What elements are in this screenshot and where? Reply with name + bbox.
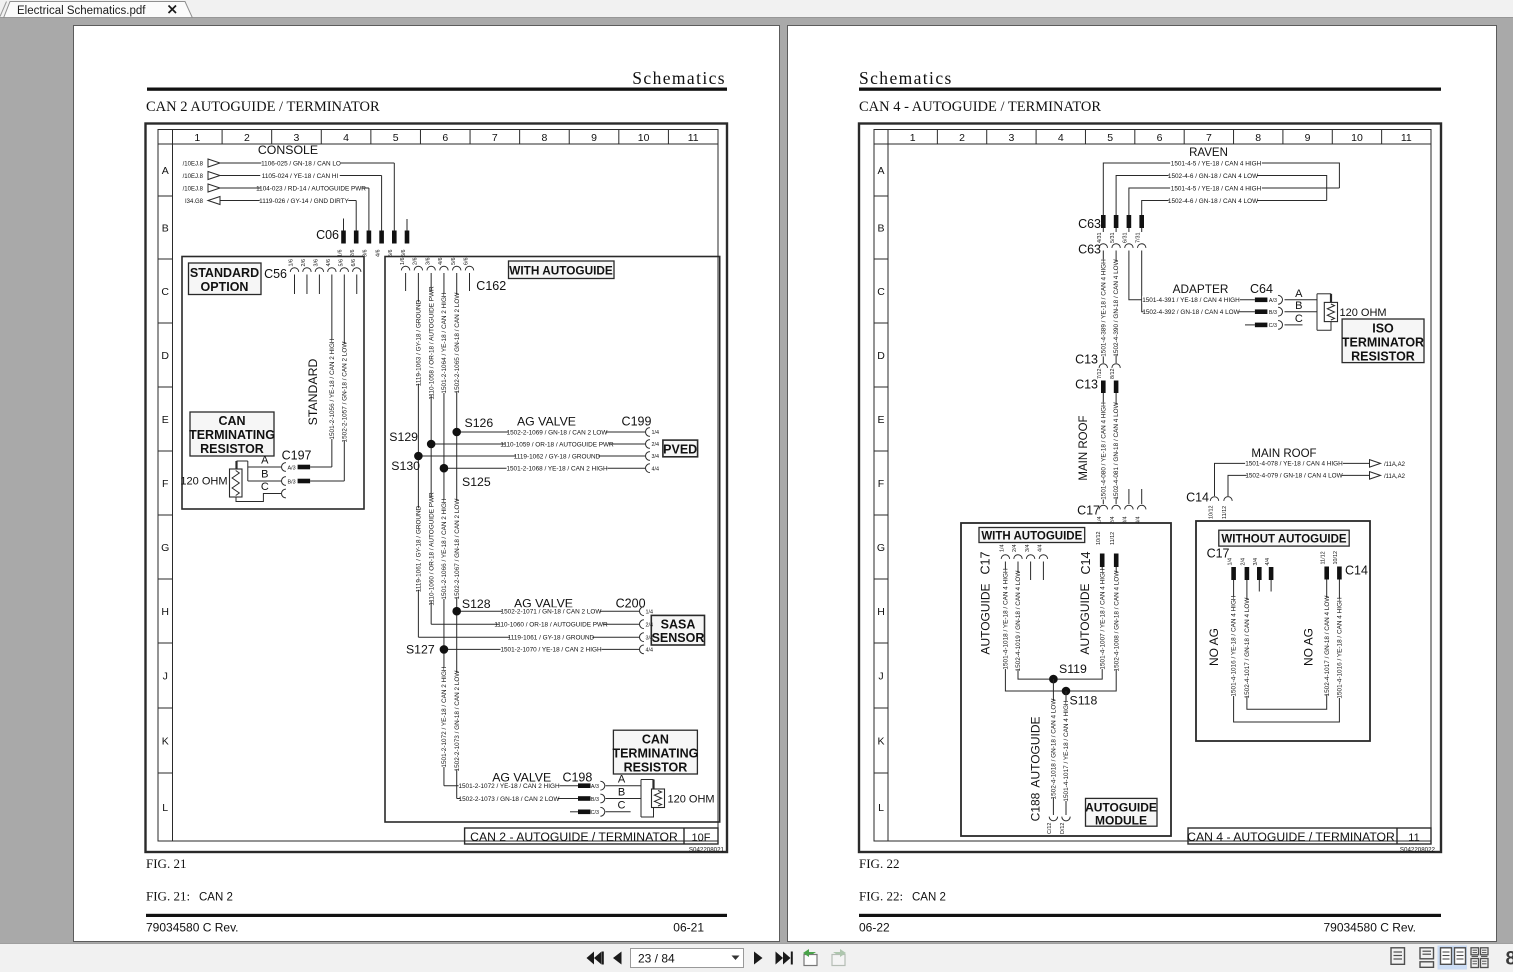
svg-text:1: 1 [194, 132, 200, 144]
svg-text:11/12: 11/12 [1110, 532, 1116, 545]
svg-text:MAIN ROOF: MAIN ROOF [1251, 448, 1316, 460]
toolbar next view button (disabled) [832, 955, 845, 966]
svg-text:1502-4-390 / GN-18 / CAN 4 LOW: 1502-4-390 / GN-18 / CAN 4 LOW [1113, 258, 1120, 356]
column header row line [158, 143, 718, 145]
svg-text:79034580 C Rev.: 79034580 C Rev. [1323, 921, 1416, 935]
connector C63 pin 4/31 [1101, 215, 1106, 228]
p2 row separator [874, 195, 888, 197]
p2 row separator [874, 642, 888, 644]
svg-text:1502-2-1071 / GN-18 / CAN 2 LO: 1502-2-1071 / GN-18 / CAN 2 LOW [501, 609, 603, 616]
page 2 sheet [787, 25, 1497, 942]
svg-text:1110-1060 / OR-18 / AUTOGUIDE: 1110-1060 / OR-18 / AUTOGUIDE PWR [494, 622, 608, 629]
svg-text:6/6: 6/6 [464, 258, 470, 266]
schematic inner frame p2 [874, 130, 1431, 842]
svg-text:4: 4 [1058, 132, 1064, 144]
svg-text:1502-2-1073 / GN-18 / CAN 2 LO: 1502-2-1073 / GN-18 / CAN 2 LOW [454, 670, 461, 772]
p2 column separator 1 [936, 130, 938, 145]
wire label 1110-1058 [428, 292, 435, 395]
svg-text:7: 7 [492, 132, 498, 144]
connector C56 pin 5/6 [340, 268, 348, 272]
C64 pin C [1245, 324, 1255, 326]
svg-text:4: 4 [343, 132, 349, 144]
svg-text:C14: C14 [1079, 551, 1093, 574]
svg-text:OPTION: OPTION [201, 280, 249, 294]
svg-text:WITHOUT AUTOGUIDE: WITHOUT AUTOGUIDE [1221, 534, 1347, 546]
svg-text:8: 8 [1255, 132, 1261, 144]
column separator 7 [519, 130, 521, 145]
svg-text:J: J [878, 670, 883, 682]
C197 pin A [282, 463, 286, 472]
svg-text:C/3: C/3 [591, 810, 599, 816]
svg-text:1502-4-1017 / GN-18 / CAN 4 LO: 1502-4-1017 / GN-18 / CAN 4 LOW [1324, 595, 1331, 697]
svg-text:RESISTOR: RESISTOR [1351, 350, 1415, 364]
wire label 1501-4-389 [1100, 260, 1107, 357]
box CAN TERMINATING RESISTOR (left) [190, 412, 274, 456]
wire to C199 pin 3/4 [418, 455, 645, 457]
C13 pin 7/12 [1099, 364, 1107, 368]
svg-text:CAN 2: CAN 2 [912, 892, 946, 904]
svg-text:TERMINATING: TERMINATING [189, 428, 275, 442]
label AUTOGUIDE MODULE [1086, 798, 1158, 826]
svg-text:1502-4-081 / GN-18 / CAN 4 LOW: 1502-4-081 / GN-18 / CAN 4 LOW [1113, 401, 1120, 499]
svg-text:S127: S127 [406, 643, 435, 657]
row separator [158, 450, 173, 452]
svg-text:1501-4-1016 / YE-18 / CAN 4 HI: 1501-4-1016 / YE-18 / CAN 4 HIGH [1337, 597, 1344, 699]
svg-text:D: D [877, 350, 885, 362]
tab bar [0, 0, 1513, 18]
svg-text:S042208022: S042208022 [1400, 847, 1436, 854]
wire C17 pin1 to S118 [1005, 562, 1066, 692]
connector C06 pin 4/6 [379, 231, 384, 244]
connector C162 pin 2/6 [414, 266, 422, 270]
wire label 1501-2-1056 [328, 339, 335, 439]
wire label 1502-2-1073 (low) [453, 673, 460, 770]
p2 column separator 9 [1331, 130, 1333, 145]
svg-text:A: A [877, 165, 884, 177]
svg-text:2/6: 2/6 [301, 259, 307, 267]
wire to C199 pin 4/4 [444, 467, 645, 469]
box WITH AUTOGUIDE p2 outline [961, 523, 1171, 836]
svg-text:C64: C64 [1250, 282, 1273, 296]
C13 black pins [1101, 381, 1106, 394]
svg-text:L: L [878, 802, 884, 814]
wire C14 11/12 to S118 [1066, 567, 1116, 691]
svg-text:C: C [161, 286, 169, 298]
C197 pin C [282, 489, 286, 498]
svg-text:1110-1059 / OR-18 / AUTOGUIDE: 1110-1059 / OR-18 / AUTOGUIDE PWR [500, 441, 614, 448]
svg-text:1/4: 1/4 [652, 430, 660, 436]
svg-text:STANDARD: STANDARD [306, 359, 320, 426]
svg-text:CAN 2 - AUTOGUIDE / TERMINA: CAN 2 - AUTOGUIDE / TERMINATOR [470, 830, 678, 844]
wire label 1501-2-1072 (low) [440, 667, 447, 767]
svg-text:WITH AUTOGUIDE: WITH AUTOGUIDE [981, 530, 1082, 542]
svg-text:C14: C14 [1345, 564, 1368, 578]
wire to C200 pin 1/4 [457, 610, 639, 612]
wire label 1502-4-1018 [1050, 701, 1057, 798]
svg-text:C162: C162 [476, 279, 506, 293]
column separator 5 [419, 130, 421, 145]
svg-text:1501-4-1016 / YE-18 / CAN 4 HI: 1501-4-1016 / YE-18 / CAN 4 HIGH [1231, 595, 1238, 697]
svg-text:TERMINATOR: TERMINATOR [1342, 336, 1424, 350]
wire to C200 pin 3/4 [418, 636, 639, 638]
svg-text:1502-4-392 / GN-18 / CAN 4 LOW: 1502-4-392 / GN-18 / CAN 4 LOW [1142, 309, 1240, 316]
wire label 1501-4-1016 (right) [1336, 598, 1343, 698]
svg-text:3/4: 3/4 [652, 454, 660, 460]
resistor bottom wire to pin C [236, 494, 281, 502]
svg-text:79034580 C Rev.: 79034580 C Rev. [146, 921, 239, 935]
svg-text:1502-2-1057 / GN-18 / CAN 2 LO: 1502-2-1057 / GN-18 / CAN 2 LOW [341, 341, 348, 443]
svg-text:11: 11 [1408, 832, 1419, 844]
junction S127 [440, 645, 449, 654]
active tab Electrical Schematics.pdf [4, 2, 193, 19]
svg-text:AUTOGUIDE: AUTOGUIDE [979, 583, 993, 654]
junction S129 [427, 440, 436, 449]
C17 without pin 4/4 [1269, 567, 1274, 580]
svg-text:1501-4-5 / YE-18 / CAN 4 HIGH: 1501-4-5 / YE-18 / CAN 4 HIGH [1171, 160, 1262, 167]
wire label 1501-4-080 [1100, 403, 1107, 500]
C17 without pin4 stub [1270, 580, 1272, 592]
connector C06 pin 1/6 [341, 231, 346, 244]
wire S118 down to C188 [1065, 691, 1067, 815]
svg-text:S125: S125 [462, 475, 491, 489]
label STANDARD OPTION [189, 263, 262, 295]
p2 row separator [874, 578, 888, 580]
svg-text:C/3: C/3 [1269, 323, 1277, 329]
row separator [158, 707, 173, 709]
svg-text:4/4: 4/4 [1038, 545, 1044, 553]
wire label 1502-4-1017 (right) [1323, 598, 1330, 695]
wire B to terminator [606, 798, 642, 800]
C17 without pin 3/4 [1257, 567, 1262, 580]
C188 pin C/12 [1049, 817, 1057, 821]
C17 box pin 1/4 [1001, 555, 1009, 559]
svg-text:MAIN ROOF: MAIN ROOF [1078, 415, 1090, 480]
svg-text:1502-2-1069 / GN-18 / CAN 2 LO: 1502-2-1069 / GN-18 / CAN 2 LOW [507, 429, 609, 436]
toolbar next page button [754, 952, 763, 965]
svg-text:3/4: 3/4 [646, 635, 654, 641]
svg-text:5/31: 5/31 [1110, 233, 1116, 244]
wire label 1502-4-1019 [1014, 573, 1021, 670]
C197 pin A wire [248, 466, 281, 468]
C198 pin B [578, 796, 591, 801]
connector C162 pin 1/6 [401, 266, 409, 270]
svg-text:CAN 2: CAN 2 [199, 892, 233, 904]
resistor 120 OHM (left) body [230, 469, 243, 497]
box WITH AUTOGUIDE outline [385, 257, 720, 823]
svg-text:6: 6 [1157, 132, 1163, 144]
svg-text:L: L [162, 802, 168, 814]
C64 pin A [1255, 298, 1268, 303]
svg-text:9: 9 [1305, 132, 1311, 144]
svg-text:3/4: 3/4 [1025, 545, 1031, 553]
wire MAIN ROOF CAN 4 LOW [1228, 475, 1370, 496]
svg-text:FIG. 21:: FIG. 21: [146, 889, 190, 904]
svg-text:H: H [161, 606, 169, 618]
svg-text:RESISTOR: RESISTOR [200, 442, 264, 456]
svg-text:K: K [162, 735, 169, 747]
svg-text:E: E [877, 414, 884, 426]
tab bar background [0, 0, 1513, 18]
svg-text:AUTOGUIDE: AUTOGUIDE [1029, 716, 1043, 787]
connector C56 pin 6/6 [353, 268, 361, 272]
C14 without pin 10/12 [1337, 567, 1342, 580]
p2 row separator [874, 386, 888, 388]
schematic inner frame [158, 130, 718, 842]
svg-text:23 / 84: 23 / 84 [638, 951, 675, 965]
svg-text:E: E [162, 414, 169, 426]
svg-text:1502-2-1073 / GN-18 / CAN 2 LO: 1502-2-1073 / GN-18 / CAN 2 LOW [459, 796, 561, 803]
svg-text:B: B [877, 222, 884, 234]
C14 pin 10/12 [1210, 497, 1218, 501]
svg-text:K: K [877, 735, 884, 747]
layout icon single page [1391, 948, 1405, 965]
svg-text:1501-2-1072 / YE-18 / CAN 2 HI: 1501-2-1072 / YE-18 / CAN 2 HIGH [458, 783, 560, 790]
connector C06 pin 3/6 [367, 231, 372, 244]
title bar CAN 2 - AUTOGUIDE / TERMINATOR [465, 828, 718, 844]
svg-text:/11A,A2: /11A,A2 [1384, 474, 1406, 480]
svg-text:G: G [161, 542, 169, 554]
tab bar bottom edge [0, 17, 1513, 19]
svg-text:RESISTOR: RESISTOR [624, 761, 688, 775]
svg-text:CAN 4 - AUTOGUIDE / TERMINA: CAN 4 - AUTOGUIDE / TERMINATOR [1187, 830, 1395, 844]
row letter column line p2 [887, 130, 889, 842]
svg-text:SASA: SASA [661, 618, 696, 632]
connector C56 pin 3/6 [315, 268, 323, 272]
wire C63 5/31 down [1115, 251, 1117, 364]
svg-text:5: 5 [393, 132, 399, 144]
svg-text:C199: C199 [622, 415, 652, 429]
svg-text:1502-2-1065 / GN-18 / CAN 2 LO: 1502-2-1065 / GN-18 / CAN 2 LOW [454, 292, 461, 394]
C13 pin 8/12 [1112, 364, 1120, 368]
wire label 1501-4-1017 [1062, 701, 1069, 801]
row separator [158, 258, 173, 260]
schematic outer frame p2 [859, 124, 1441, 853]
svg-text:D/12: D/12 [1060, 823, 1066, 834]
ISO terminator bracket [1316, 294, 1318, 330]
footer rule [146, 914, 727, 917]
C17 without pin 1/4 [1231, 567, 1236, 580]
connector C63 pin 6/31 [1127, 215, 1132, 228]
p2 row separator [874, 450, 888, 452]
svg-text:4/6: 4/6 [438, 258, 444, 266]
p2 column separator 4 [1084, 130, 1086, 145]
C162 stub wires pins 1 and 6 [405, 273, 407, 291]
svg-text:1/4: 1/4 [1227, 558, 1233, 566]
row separator [158, 322, 173, 324]
svg-text:S118: S118 [1070, 694, 1098, 708]
svg-text:C: C [1295, 313, 1303, 325]
RAVEN wire CAN 4 LOW lower [1142, 201, 1327, 216]
svg-text:1/4: 1/4 [1000, 545, 1006, 553]
wire label 1501-4-1007 [1099, 569, 1106, 669]
svg-text:J: J [163, 670, 168, 682]
svg-text:RAVEN: RAVEN [1189, 147, 1228, 159]
svg-text:STANDARD: STANDARD [190, 266, 259, 280]
C17 top pin 2/4 [1112, 505, 1120, 509]
svg-text:8: 8 [1506, 949, 1513, 970]
wire C63 4/31 down [1102, 251, 1104, 364]
row separator [158, 195, 173, 197]
svg-text:S129: S129 [389, 430, 418, 444]
svg-text:1119-1061 / GY-18 / GROUND: 1119-1061 / GY-18 / GROUND [415, 505, 422, 592]
connector C56 pin 1/6 [290, 268, 298, 272]
wire A to terminator [606, 785, 642, 787]
svg-text:MODULE: MODULE [1095, 814, 1147, 828]
wire CAN 2 HIGH from C56 pin 4 [331, 275, 333, 468]
svg-text:5/6: 5/6 [451, 258, 457, 266]
C188 pin D/12 [1062, 817, 1070, 821]
svg-text:1501-2-1064 / YE-18 / CAN 2 HI: 1501-2-1064 / YE-18 / CAN 2 HIGH [441, 292, 448, 394]
wire CAN 2 LOW vertical [456, 273, 458, 799]
connector C56 pin 2/6 [303, 268, 311, 272]
svg-text:C17: C17 [1207, 547, 1230, 561]
svg-text:S126: S126 [465, 416, 494, 430]
svg-text:2/4: 2/4 [1241, 558, 1247, 566]
C56 pin stub wires [294, 275, 296, 295]
svg-text:ADAPTER: ADAPTER [1173, 282, 1229, 296]
svg-text:11: 11 [688, 132, 699, 144]
p2 row separator [874, 707, 888, 709]
svg-text:1501-4-389 / YE-18 / CAN 4 HIG: 1501-4-389 / YE-18 / CAN 4 HIGH [1100, 259, 1107, 357]
wire elbow CAN 2 LOW to C198 B [457, 798, 578, 800]
svg-text:C56: C56 [264, 267, 287, 281]
box ISO TERMINATOR RESISTOR [1342, 319, 1424, 363]
svg-text:1501-4-1018 / YE-18 / CAN 4 HI: 1501-4-1018 / YE-18 / CAN 4 HIGH [1003, 568, 1010, 670]
p2 column separator 7 [1233, 130, 1235, 145]
svg-text:H: H [877, 606, 885, 618]
box WITHOUT AUTOGUIDE outline [1196, 521, 1370, 741]
svg-text:Schematics: Schematics [632, 68, 726, 88]
wire C63 6/31 to adapter [1129, 251, 1255, 300]
svg-text:1110-1060 / OR-18 / AUTOGUIDE: 1110-1060 / OR-18 / AUTOGUIDE PWR [428, 492, 435, 606]
svg-text:1106-025 / GN-18 / CAN LO: 1106-025 / GN-18 / CAN LO [261, 160, 341, 167]
svg-text:Electrical Schematics.pdf: Electrical Schematics.pdf [17, 5, 146, 17]
svg-text:11/12: 11/12 [1222, 506, 1228, 519]
svg-text:A/3: A/3 [591, 784, 599, 790]
layout icon two pages (active) [1438, 946, 1468, 970]
svg-text:B/3: B/3 [591, 797, 599, 803]
svg-text:CAN 4 - AUTOGUIDE / TERMINATOR: CAN 4 - AUTOGUIDE / TERMINATOR [859, 99, 1101, 115]
wire label 1502-4-1017 (left) [1243, 600, 1250, 697]
wire S119 down to C188 [1052, 679, 1054, 815]
C14 box pin 10/12 [1100, 554, 1105, 568]
layout icon continuous [1420, 948, 1434, 959]
RAVEN wire CAN 4 HIGH upper [1103, 163, 1339, 215]
svg-text:5/6: 5/6 [339, 259, 345, 267]
svg-text:/10EJ.8: /10EJ.8 [183, 186, 204, 192]
page 2 header rule [859, 88, 1441, 91]
p2 column separator 3 [1035, 130, 1037, 145]
C198 pin A [578, 783, 591, 788]
svg-text:C188: C188 [1029, 792, 1043, 821]
svg-text:SENSOR: SENSOR [652, 631, 705, 645]
svg-text:Schematics: Schematics [859, 68, 953, 88]
svg-text:1119-1061 / GY-18 / GROUND: 1119-1061 / GY-18 / GROUND [508, 635, 595, 642]
svg-text:A: A [1295, 288, 1303, 300]
svg-text:G: G [877, 542, 885, 554]
svg-text:1502-2-1067 / GN-18 / CAN 2 LO: 1502-2-1067 / GN-18 / CAN 2 LOW [454, 498, 461, 600]
C17 pin4 stub [1042, 562, 1044, 581]
svg-text:WITH AUTOGUIDE: WITH AUTOGUIDE [509, 264, 613, 278]
wire label 1502-4-390 [1113, 261, 1120, 355]
wire label 1501-2-1066 (mid) [440, 499, 447, 599]
svg-text:5: 5 [1107, 132, 1113, 144]
svg-text:FIG. 22: FIG. 22 [859, 856, 899, 871]
C17 top pin 1/4 [1099, 505, 1107, 509]
svg-text:4/31: 4/31 [1097, 233, 1103, 244]
svg-text:1: 1 [910, 132, 916, 144]
svg-text:1105-024 / YE-18 / CAN HI: 1105-024 / YE-18 / CAN HI [262, 173, 339, 180]
connector C162 pin 4/6 [440, 266, 448, 270]
svg-text:C: C [877, 286, 885, 298]
wire label 1119-1061 (mid) [415, 508, 422, 590]
wire label 1502-2-1067 (mid) [453, 501, 460, 598]
svg-text:1502-4-6 / GN-18 / CAN 4 LOW: 1502-4-6 / GN-18 / CAN 4 LOW [1168, 198, 1259, 205]
p2 row separator [874, 514, 888, 516]
svg-text:C14: C14 [1186, 491, 1209, 505]
svg-text:1502-4-1008 / GN-18 / CAN 4 LO: 1502-4-1008 / GN-18 / CAN 4 LOW [1113, 570, 1120, 672]
wire CAN 4 LOW below C13 [1115, 393, 1117, 504]
column separator 8 [568, 130, 570, 145]
connector C162 pin 3/6 [427, 266, 435, 270]
svg-text:2/4: 2/4 [646, 622, 654, 628]
C14 pin 11/12 [1224, 497, 1232, 501]
C17 top pin 4/4 [1141, 489, 1143, 504]
resistor 120 OHM (right) body [652, 789, 665, 808]
box PVED [663, 440, 698, 457]
svg-text:/10EJ.8: /10EJ.8 [183, 174, 204, 180]
svg-text:C197: C197 [282, 449, 312, 463]
column separator 3 [320, 130, 322, 145]
svg-text:F: F [162, 478, 168, 490]
svg-text:S128: S128 [462, 597, 491, 611]
column separator 6 [469, 130, 471, 145]
row separator [158, 514, 173, 516]
svg-text:C63: C63 [1078, 243, 1101, 257]
wire to C200 pin 2/4 [431, 623, 639, 625]
svg-text:AUTOGUIDE: AUTOGUIDE [1085, 801, 1157, 815]
svg-text:1119-1063 / GY-18 / GROUND: 1119-1063 / GY-18 / GROUND [415, 299, 422, 386]
toolbar previous page button [613, 952, 622, 965]
C197 pin B wire [248, 480, 281, 482]
column separator 4 [370, 130, 372, 145]
wire label 1502-4-1008 [1113, 573, 1120, 670]
svg-text:4/6: 4/6 [326, 259, 332, 267]
svg-text:10/12: 10/12 [1333, 551, 1339, 565]
svg-text:1/6: 1/6 [400, 258, 406, 266]
svg-text:C17: C17 [1077, 504, 1100, 518]
box STANDARD OPTION outline [182, 257, 364, 510]
connector C06 pin 5/6 [392, 231, 397, 244]
svg-text:1501-4-1007 / YE-18 / CAN 4 HI: 1501-4-1007 / YE-18 / CAN 4 HIGH [1099, 568, 1106, 670]
connector C162 pin 6/6 [465, 266, 473, 270]
svg-text:7/12: 7/12 [1097, 369, 1103, 380]
p2 column separator 2 [986, 130, 988, 145]
RAVEN wire CAN 4 HIGH lower [1129, 188, 1340, 215]
page 1 header rule [147, 88, 727, 91]
svg-text:2: 2 [244, 132, 250, 144]
svg-text:A/3: A/3 [288, 465, 296, 471]
svg-text:3: 3 [1008, 132, 1014, 144]
p2 row separator [874, 772, 888, 774]
svg-text:C63: C63 [1078, 217, 1101, 231]
svg-text:120 OHM: 120 OHM [668, 794, 715, 806]
svg-text:10: 10 [1351, 132, 1363, 144]
svg-text:NO AG: NO AG [1302, 628, 1316, 666]
label WITH AUTOGUIDE p2 [979, 528, 1085, 543]
svg-text:ISO: ISO [1372, 322, 1394, 336]
svg-text:1104-023 / RD-14 / AUTOGUIDE P: 1104-023 / RD-14 / AUTOGUIDE PWR [256, 185, 366, 192]
